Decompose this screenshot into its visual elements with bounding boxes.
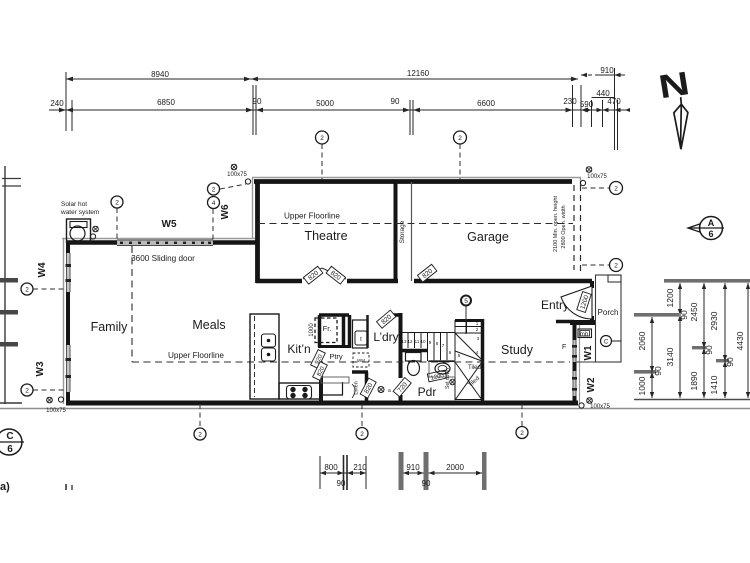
top dim texts — [50, 66, 621, 109]
svg-text:3140: 3140 — [665, 347, 675, 366]
svg-text:A: A — [708, 218, 715, 228]
chain arrows — [320, 471, 482, 475]
svg-text:2: 2 — [520, 430, 524, 437]
extension line x410 double — [409, 100, 411, 135]
svg-text:W1: W1 — [583, 345, 594, 360]
west wall segment between W4 and W3 — [66, 292, 70, 345]
svg-text:230: 230 — [563, 97, 577, 106]
grid bubble west 1 — [21, 283, 33, 295]
family top wall right stub — [212, 240, 259, 245]
leader bottom bubble 1 — [199, 404, 201, 428]
extension line x614.5 — [614, 68, 616, 150]
svg-text:90: 90 — [391, 97, 400, 106]
family top wall left stub — [66, 240, 118, 245]
svg-text:100x75: 100x75 — [46, 408, 66, 414]
svg-text:12160: 12160 — [407, 69, 430, 78]
pdr top wall — [400, 349, 428, 353]
left edge wall bar 1 — [0, 278, 18, 283]
grid bubble solar — [111, 196, 123, 208]
svg-text:1410: 1410 — [709, 375, 719, 394]
island bench outline — [250, 314, 279, 399]
post solar corner — [93, 226, 99, 232]
stairs east wall — [481, 319, 485, 402]
study east wall mid — [573, 362, 577, 371]
grid bubble stairs — [461, 296, 471, 306]
chain1 dim line — [320, 472, 366, 474]
svg-text:WM: WM — [357, 358, 365, 363]
study east wall lower — [573, 396, 577, 404]
garage bottom wall — [414, 279, 592, 284]
chain1 extension lines — [319, 456, 321, 489]
entry south wall — [556, 320, 574, 324]
svg-text:2: 2 — [320, 135, 324, 142]
winder treads — [455, 326, 483, 328]
entry right wall lower stub — [590, 316, 594, 325]
svg-text:2800 Open. width: 2800 Open. width — [561, 205, 567, 248]
sink 1 — [262, 334, 276, 347]
grid bubble east 2 — [610, 259, 623, 272]
pantry alcove return lines — [323, 394, 343, 396]
left edge double line bottom — [0, 402, 22, 404]
svg-text:C: C — [6, 431, 13, 442]
garage door opening dashed pair — [573, 185, 575, 270]
svg-text:100x75: 100x75 — [590, 404, 610, 410]
pantry shelves — [321, 377, 349, 383]
cooktop — [287, 386, 312, 400]
svg-text:2: 2 — [614, 263, 618, 270]
grid bubble W6 a — [208, 183, 220, 195]
grid bubble west 2 — [21, 384, 33, 396]
stair tread numbers — [401, 321, 479, 358]
entry right wall upper — [590, 281, 594, 288]
svg-text:2100 Min. open. height: 2100 Min. open. height — [553, 196, 559, 252]
washing machine dashed — [353, 353, 369, 367]
window W1 glazing — [573, 340, 577, 362]
island inner dashed — [254, 316, 256, 397]
svg-text:210: 210 — [353, 463, 367, 472]
leader W6 bubble right — [220, 184, 246, 189]
svg-text:water system: water system — [60, 209, 99, 216]
study east wall upper — [573, 321, 577, 340]
fridge — [315, 318, 337, 343]
svg-text:Theatre: Theatre — [304, 229, 347, 243]
linen closet east wall — [365, 372, 369, 403]
leader west bubble 2 — [33, 389, 66, 391]
grid bubble top 1 — [316, 131, 329, 144]
svg-text:Upper Floorline: Upper Floorline — [284, 212, 340, 221]
svg-text:2: 2 — [25, 287, 29, 294]
left edge wall bar 2 — [0, 310, 18, 315]
window W3 glazing — [66, 345, 71, 392]
svg-text:800: 800 — [324, 463, 338, 472]
svg-text:Solar hot: Solar hot — [61, 201, 87, 208]
extension line x572 — [572, 85, 574, 127]
svg-text:1000: 1000 — [309, 323, 315, 337]
svg-text:90: 90 — [653, 366, 663, 376]
dim line 2930-1410 — [724, 283, 726, 398]
svg-text:2060: 2060 — [637, 331, 647, 350]
west wall segment below W3 — [66, 392, 70, 404]
extension line x602.5 — [602, 100, 604, 127]
svg-text:W2: W2 — [586, 377, 597, 392]
dim line 2450-1890 — [703, 283, 705, 398]
family upper floorline dashed vertical — [131, 246, 133, 362]
svg-text:Tiled: Tiled — [468, 365, 481, 371]
svg-text:W3: W3 — [35, 361, 46, 376]
sink 2 — [262, 348, 276, 361]
svg-text:F: F — [562, 344, 566, 351]
svg-text:90: 90 — [725, 357, 735, 367]
dim line 910 — [581, 74, 596, 76]
svg-text:100x75: 100x75 — [227, 172, 247, 178]
svg-text:2: 2 — [360, 431, 364, 438]
tick bar 2450 — [692, 346, 706, 349]
porch tag bubble — [601, 336, 612, 347]
svg-text:910: 910 — [406, 463, 420, 472]
extension line x591.5 — [591, 100, 593, 127]
svg-text:W5: W5 — [162, 219, 177, 230]
theatre upper floorline dashed — [258, 223, 573, 225]
eaves line above family wall — [62, 238, 257, 240]
svg-text:4430: 4430 — [735, 331, 745, 350]
grid bubble W6 b — [208, 197, 220, 209]
chain texts — [324, 463, 464, 488]
leader top bubble 1 — [321, 144, 323, 180]
sliding door track band — [117, 240, 213, 246]
svg-text:2: 2 — [614, 186, 618, 193]
svg-text:Porch: Porch — [598, 308, 619, 317]
svg-text:Garage: Garage — [467, 230, 509, 244]
left boundary vertical line — [4, 166, 6, 404]
left edge wall bar 3 — [0, 342, 18, 347]
fridge alcove east wall — [342, 315, 346, 346]
dim line 2060-1000 — [651, 317, 653, 398]
north arrow shaft — [672, 97, 689, 150]
svg-text:470: 470 — [607, 97, 621, 106]
boundary line below plan full width — [0, 408, 750, 410]
tiled landing X — [455, 362, 482, 400]
svg-text:Fr.: Fr. — [323, 324, 332, 333]
svg-text:6850: 6850 — [157, 98, 175, 107]
svg-text:13: 13 — [401, 339, 407, 344]
left edge tick pair top — [2, 178, 21, 180]
svg-text:a: a — [388, 388, 391, 394]
dim line 1200-3140 — [679, 283, 681, 398]
svg-text:Study: Study — [501, 343, 534, 357]
svg-text:90: 90 — [253, 97, 262, 106]
mid boundary bar 2 — [634, 370, 656, 374]
grid bubble bottom 3 — [516, 427, 528, 439]
chain2 wall section bars gray — [399, 452, 404, 490]
dim line 240/6850/90/5000/90/6600/230 — [49, 109, 630, 111]
svg-text:1000: 1000 — [637, 376, 647, 395]
top boundary bar — [664, 279, 750, 283]
svg-text:Linen: Linen — [354, 381, 360, 394]
svg-text:6: 6 — [7, 444, 13, 455]
svg-text:2450: 2450 — [689, 302, 699, 321]
stair left flight boundary — [402, 332, 455, 334]
window W2 glazing — [573, 371, 577, 396]
svg-text:240: 240 — [50, 99, 64, 108]
landing boundary — [428, 361, 455, 363]
svg-text:90: 90 — [704, 345, 714, 355]
storage left wall — [394, 182, 398, 281]
eaves line right of study wall — [579, 322, 581, 404]
leader solar bubble — [116, 208, 118, 240]
svg-text:3600 Sliding door: 3600 Sliding door — [131, 254, 195, 263]
svg-text:Ptry: Ptry — [329, 352, 343, 361]
svg-text:mb: mb — [580, 332, 589, 338]
door hardware symbol — [378, 387, 384, 393]
svg-text:N: N — [656, 65, 692, 106]
bottom line dark — [634, 399, 750, 401]
svg-text:C: C — [604, 340, 609, 346]
laundry top wall east of door — [392, 313, 402, 317]
svg-text:6600: 6600 — [477, 99, 495, 108]
svg-text:2: 2 — [212, 187, 216, 194]
svg-text:Family: Family — [91, 320, 129, 334]
extension line x72 — [71, 100, 73, 131]
leader W6 bubble down — [212, 209, 214, 240]
theatre-garage top wall — [254, 179, 572, 184]
eaves line above theatre-garage wall — [252, 177, 581, 179]
extension line x581 — [580, 85, 582, 127]
dim line 8940+12160 — [66, 78, 578, 80]
svg-text:2: 2 — [458, 135, 462, 142]
pantry west wall upper — [318, 315, 322, 347]
laundry door swing tiny — [352, 384, 355, 398]
kitchen block top wall — [319, 313, 349, 317]
svg-text:1890: 1890 — [689, 371, 699, 390]
svg-text:2: 2 — [25, 388, 29, 395]
chain2 dim line — [403, 472, 484, 474]
svg-text:4: 4 — [212, 200, 216, 207]
svg-text:100x75: 100x75 — [587, 174, 607, 180]
svg-text:5: 5 — [464, 298, 468, 305]
svg-text:10: 10 — [420, 339, 426, 344]
laundry-pdr dividing wall — [399, 313, 403, 378]
laundry west wall upper — [348, 315, 352, 348]
fridge-pantry divider wall — [318, 345, 351, 348]
mid boundary bar 1 — [634, 313, 679, 317]
pdr west wall lower stub — [399, 395, 403, 402]
window W4 glazing — [66, 253, 71, 292]
trough — [353, 320, 368, 348]
mb meter box — [578, 329, 592, 338]
dim line 4430 — [747, 283, 749, 398]
toilet — [406, 353, 422, 362]
right block texts rotated — [637, 288, 745, 395]
grid bubble bottom 1 — [194, 428, 206, 440]
grid bubble top 2 — [454, 131, 467, 144]
track tick marks — [120, 242, 211, 244]
leader east bubble 1 — [582, 187, 609, 189]
dim line 440 — [592, 97, 615, 99]
west wall segment above W4 — [66, 241, 70, 253]
stairs top wall — [455, 319, 484, 322]
svg-text:90: 90 — [422, 479, 431, 488]
linen closet top wall — [352, 370, 368, 374]
leader west bubble 1 — [33, 288, 66, 290]
theatre left wall — [255, 180, 260, 283]
bench bottom run — [279, 383, 322, 399]
svg-text:2: 2 — [115, 200, 119, 207]
pantry west wall lower stub — [319, 376, 323, 403]
svg-text:a): a) — [0, 481, 10, 493]
extension line x253 double — [252, 85, 254, 135]
svg-text:8940: 8940 — [151, 70, 169, 79]
leader top bubble 2 — [459, 144, 461, 180]
basin — [429, 361, 455, 378]
leader east bubble 2 — [582, 264, 609, 266]
eaves line left of west wall — [63, 239, 65, 405]
svg-text:90: 90 — [337, 479, 346, 488]
family upper floorline dashed horizontal — [132, 361, 570, 363]
leader bottom bubble 2 — [361, 404, 363, 427]
svg-text:Upper Floorline: Upper Floorline — [168, 351, 224, 360]
svg-text:590: 590 — [580, 100, 594, 109]
svg-text:5000: 5000 — [316, 99, 334, 108]
eaves line left of theatre wall — [252, 178, 254, 239]
bottom wall — [66, 401, 578, 406]
top dim arrowheads — [59, 73, 630, 113]
eaves stub right of garage — [580, 178, 582, 187]
svg-text:Pdr: Pdr — [418, 385, 437, 399]
svg-text:12: 12 — [407, 339, 413, 344]
treads — [407, 333, 409, 349]
svg-text:11: 11 — [415, 339, 420, 344]
leader bottom bubble 3 — [521, 404, 523, 426]
tick bar 2930 — [716, 359, 729, 362]
svg-text:2930: 2930 — [709, 311, 719, 330]
grid bubble east 1 — [610, 182, 623, 195]
storage right thin wall — [411, 182, 413, 281]
svg-text:910: 910 — [600, 66, 614, 75]
svg-text:W4: W4 — [37, 262, 48, 277]
svg-text:90: 90 — [679, 310, 689, 320]
entry-study jog wall — [570, 320, 595, 325]
svg-text:2: 2 — [198, 432, 202, 439]
svg-text:Meals: Meals — [192, 318, 225, 332]
svg-text:Kit’n: Kit’n — [287, 342, 310, 356]
svg-text:2000: 2000 — [446, 463, 464, 472]
svg-text:L’dry: L’dry — [373, 330, 398, 344]
svg-text:6: 6 — [708, 229, 713, 239]
right block arrows — [650, 283, 750, 398]
extension line x66 — [65, 72, 67, 131]
svg-text:W6: W6 — [220, 204, 231, 219]
theatre bottom wall mid part — [347, 279, 398, 284]
svg-text:Storage: Storage — [399, 220, 406, 243]
svg-text:1200: 1200 — [665, 288, 675, 307]
leader stairs bubble — [465, 306, 467, 334]
winder diagonals — [455, 333, 482, 360]
tiny marks bottom left — [65, 484, 67, 490]
grid bubble bottom 2 — [356, 428, 368, 440]
theatre bottom wall west part — [256, 279, 302, 284]
